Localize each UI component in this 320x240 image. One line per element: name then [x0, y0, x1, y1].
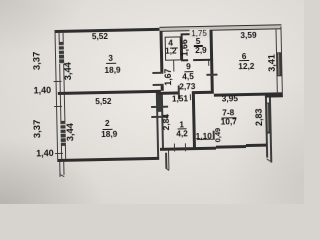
- label room 4 area 1,2: [154, 46, 188, 56]
- wall: step between 6 and 7-8 right: [264, 94, 283, 98]
- label 3,59 room 6: [231, 30, 265, 40]
- wall: room 7-8 right inner: [265, 98, 268, 158]
- tick: bottom wall a: [173, 143, 175, 151]
- wall: rooms 2/1 double line left: [156, 93, 159, 157]
- window: room 2 left pier: [60, 121, 66, 146]
- door cap top room 3: [152, 71, 163, 73]
- underline room 7-8: [221, 117, 236, 118]
- wall: divider rooms 3/2: [58, 90, 161, 95]
- node: room 9 number: [171, 62, 205, 72]
- jamb tick b: [193, 94, 195, 100]
- label 2,73: [170, 82, 204, 92]
- wall: between 4/5/9 and room 6: [209, 30, 213, 92]
- label 1,67: [164, 60, 174, 94]
- window: room 3 left pier: [58, 42, 64, 64]
- tick: door room 6: [206, 74, 218, 76]
- room 4 box: [164, 36, 181, 60]
- node: room 3 number: [94, 53, 128, 63]
- label 3,44 room 3: [63, 54, 73, 88]
- window seam room 7-8: [267, 104, 268, 132]
- label room 3 area 18,9: [95, 65, 129, 75]
- underline room 1: [177, 128, 186, 129]
- label 3,95: [213, 94, 247, 104]
- label room 6 area 12,2: [229, 61, 263, 71]
- node: room 5 number: [181, 37, 215, 47]
- jamb tick a: [190, 94, 192, 100]
- wall: top exterior left solid: [55, 28, 160, 33]
- tick: left dim y79: [53, 81, 61, 83]
- label room 1 area 4,2: [165, 129, 199, 139]
- label 2,84: [162, 105, 172, 139]
- wall: room 2 bottom exterior: [58, 156, 159, 161]
- label 3,37 top: [33, 44, 43, 78]
- label 1,51: [163, 94, 197, 104]
- underline room 9: [184, 71, 193, 72]
- node: room 4 number: [153, 38, 187, 48]
- underline room 6: [239, 60, 249, 61]
- window: room 6 right: [276, 52, 282, 76]
- door leaf corridor: [178, 85, 180, 99]
- underline room 4: [169, 47, 177, 48]
- node: room 6 number: [227, 52, 261, 62]
- label 1,40 top: [25, 86, 59, 96]
- label 3,41 room 6: [267, 45, 277, 79]
- label room 2 area 18,9: [92, 130, 126, 140]
- wall: room 1 right: [191, 91, 195, 149]
- wall: room 5 top: [182, 32, 211, 35]
- wall: corridor bottom left seg: [158, 91, 180, 94]
- wall: rooms 2/1 double line right: [161, 93, 164, 150]
- label 1,10: [187, 131, 221, 141]
- label room 5 area 2,9: [184, 46, 218, 56]
- tick: small left of wall96: [208, 61, 209, 66]
- label 0,49: [213, 118, 223, 152]
- label room 3 width 5,52: [83, 32, 117, 42]
- underline room 5: [193, 45, 203, 46]
- wall: left inner line a: [58, 32, 62, 159]
- tick: wall 2/1 y106: [151, 106, 168, 108]
- window: room 7-8 right: [265, 103, 271, 134]
- door notch vertical line 0,49: [213, 131, 215, 140]
- wall: left exterior thin outer line: [54, 30, 58, 162]
- wall: room 5 bottom left seg: [181, 59, 188, 62]
- tick: left dim y104: [54, 106, 62, 108]
- node: room 2 number: [90, 119, 124, 129]
- tick: bottom wall b: [185, 143, 187, 151]
- wall: room 5 bottom right seg: [193, 59, 213, 62]
- door leaf room 4: [173, 60, 175, 71]
- label 1,40 bottom: [28, 149, 62, 159]
- wall: bottom of 7-8 right seg a: [216, 145, 246, 149]
- door cap bottom room 3: [153, 84, 164, 86]
- stub: wall below rooms 1/2 junction: [165, 153, 167, 169]
- tick: wall 2/1 y116: [151, 116, 168, 118]
- underline room 3: [106, 62, 116, 63]
- wall: rooms 2/1 dark block: [156, 93, 163, 112]
- label room 2 width 5,52: [86, 96, 120, 106]
- wall: left inner line b: [63, 32, 67, 159]
- label 3,44 room 2: [66, 115, 76, 149]
- wall: room 6 right outer line: [280, 26, 283, 94]
- stub: left exterior below bottom wall: [59, 161, 61, 176]
- wall: bottom of rooms 1 / 7-8 left seg: [160, 146, 216, 150]
- wall: between room 3 and rooms 4/9 upper: [160, 31, 164, 74]
- wall: short segment above divider: [161, 86, 164, 91]
- label 3,37 bottom: [33, 112, 43, 146]
- wall: corridor bottom right seg: [193, 91, 214, 94]
- window seam room 6: [278, 53, 279, 75]
- label 1,75 room 5: [189, 29, 209, 38]
- node: room 1 number: [165, 120, 199, 130]
- stub tip diagonal left: [60, 174, 65, 177]
- label room 7-8 area 10,7: [212, 117, 246, 127]
- door threshold line 1,10: [197, 138, 215, 140]
- underline room 2: [102, 128, 112, 129]
- node: room 7-8 number: [211, 108, 245, 118]
- tick: left dim y151: [55, 152, 63, 154]
- label 1,66 room 5: [180, 31, 190, 65]
- wall: divider rooms 6 / 7-8: [213, 92, 283, 97]
- wall: room 5 left: [181, 33, 184, 61]
- stub tip diagonal right: [267, 158, 271, 162]
- label room 9 area 4,5: [171, 72, 205, 82]
- stub tip diagonal: [166, 167, 170, 170]
- wall: room 6 right inner line: [275, 28, 278, 94]
- wall: top exterior right double: [159, 24, 281, 32]
- label 2,83: [255, 100, 265, 134]
- wall: room 7-8 right outer: [269, 98, 272, 163]
- wall: bottom of 7-8 right seg b: [246, 143, 267, 146]
